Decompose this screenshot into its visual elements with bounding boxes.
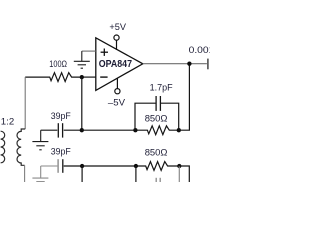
resistor R1 100 ohm (25, 73, 82, 82)
ground below capacitor C2 (32, 166, 48, 182)
wire inverting node down to feedback row (81, 77, 83, 130)
op-amp U1 OPA847 triangle (96, 38, 143, 91)
transformer T1 primary winding (1, 131, 5, 163)
svg-text:850Ω: 850Ω (145, 113, 168, 124)
-5V supply terminal circle (115, 78, 120, 93)
svg-text:100Ω: 100Ω (49, 59, 67, 70)
wire output node down to feedback row (179, 64, 190, 131)
node output junction dot (187, 62, 191, 66)
resistor R2 850 ohm feedback (135, 126, 178, 135)
op-amp U1 minus input marking (100, 76, 107, 78)
wire input corner down to transformer secondary (24, 77, 26, 129)
node R3 left junction dot (134, 164, 138, 168)
resistor R3 850 ohm lower (136, 162, 179, 171)
+5V supply terminal circle (114, 35, 119, 50)
svg-text:850Ω: 850Ω (145, 148, 168, 159)
svg-text:–5V: –5V (108, 98, 126, 109)
svg-text:1.7pF: 1.7pF (150, 82, 173, 93)
capacitor C1 39pF upper (58, 123, 62, 137)
node R3 right junction dot (177, 164, 181, 168)
node feedback row junction at inverting column (80, 128, 84, 132)
wire R3 right box side down to edge (178, 166, 180, 182)
capacitor C4 output coupling plate (207, 59, 209, 70)
svg-text:OPA847: OPA847 (99, 59, 133, 70)
node R2 left junction dot (133, 128, 137, 132)
wire lower output column down to edge (179, 166, 189, 182)
svg-text:0.001µF: 0.001µF (189, 45, 210, 56)
node inverting input junction dot (80, 75, 84, 79)
wire lower junction down to edge (81, 166, 83, 182)
node lower row junction dot (80, 164, 84, 168)
wire transformer secondary bottom down to edge (24, 165, 26, 182)
ground at noninverting input (74, 51, 90, 68)
wire feedback row to R2 (82, 129, 136, 131)
ground below capacitor C1 (32, 130, 48, 150)
transformer T1 secondary winding (17, 129, 25, 165)
wire lower row to R3 (82, 165, 136, 167)
wire inverting input (82, 76, 96, 78)
node R2 right junction dot (177, 128, 181, 132)
svg-text:1:2: 1:2 (1, 117, 14, 128)
wire R3 left box side down to edge (135, 166, 137, 182)
op-amp U1 plus input marking (101, 49, 108, 56)
capacitor C5 1.7pF lower plates partial (156, 178, 160, 182)
svg-text:39pF: 39pF (51, 147, 71, 158)
capacitor C3 1.7pF feedback (156, 96, 160, 111)
wire noninverting input to ground (82, 50, 96, 52)
svg-text:+5V: +5V (109, 22, 126, 33)
capacitor C2 39pF lower (57, 159, 59, 173)
svg-text:39pF: 39pF (51, 111, 71, 122)
wire op-amp output (143, 63, 207, 65)
